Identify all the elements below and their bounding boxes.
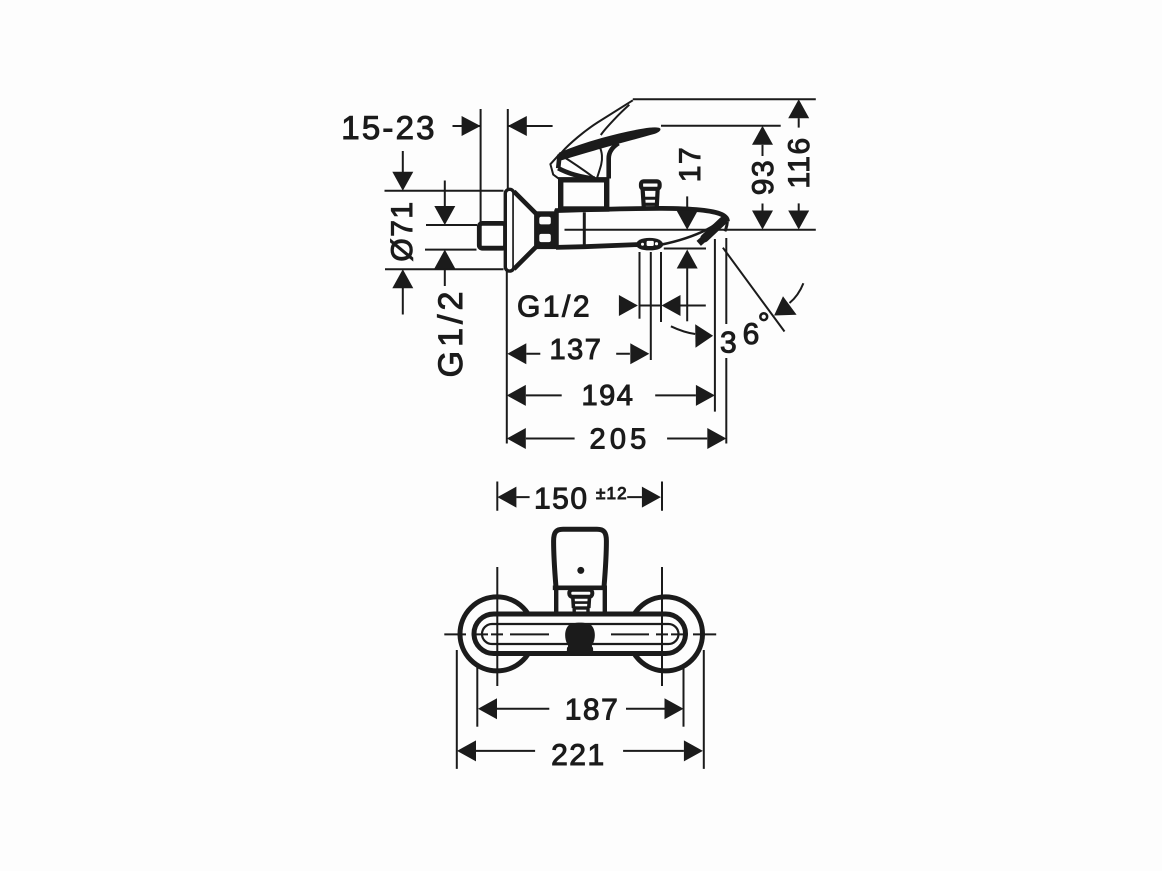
dim 137 [526,353,630,355]
body bottom edge [556,245,637,248]
handle base band [553,585,607,590]
aerator [636,238,663,251]
dim 205 [526,438,708,440]
angle 36 leader left [671,326,695,334]
svg-text:221: 221 [551,739,606,772]
extension line spout tip [714,239,716,412]
extension 187 right [683,668,685,727]
dim 221 [476,750,684,752]
dim 93 [762,145,764,156]
extension line aerator left [639,252,641,319]
extension line wall face bottom long [506,272,508,444]
handle wedge bottom edge [558,168,595,179]
handle front edge [609,143,619,178]
spout under curve [661,225,715,245]
svg-text:17: 17 [674,146,707,182]
handle crease front [597,147,602,178]
handle top thin line A [562,100,633,152]
extension line spout end 205 [725,238,727,444]
svg-text:93: 93 [747,159,780,195]
spout mouth band [705,221,724,238]
dim 187 [497,708,665,710]
inner capsule [482,624,679,644]
cartridge neck [561,180,607,209]
dim G1/2 aerator [640,305,706,307]
union collar (black block) [536,211,557,249]
diverter front blob [565,623,595,655]
extension line spout outlet [664,248,706,250]
svg-text:150: 150 [534,482,589,515]
36 degree diagonal [723,248,785,332]
handle left facet thin [550,154,559,179]
handle front [554,529,607,586]
right escutcheon circle [629,597,703,671]
extension 187 left [476,667,478,727]
extension line 93 top [661,125,781,127]
wall nipple G1/2 [479,223,505,248]
svg-text:116: 116 [783,136,816,188]
extension line nipple dia bottom [425,249,477,251]
body left edge [554,210,559,249]
handle wedge left edge [558,155,559,169]
axis line front [444,633,716,635]
dim 15-23 [453,125,553,127]
angle 36 leader right arc [790,283,804,303]
body joint line [583,212,586,246]
left escutcheon circle [460,597,534,671]
svg-text:3: 3 [720,327,737,360]
dim 150 [516,496,642,498]
svg-text:G1/2: G1/2 [432,288,470,378]
body top edge [555,208,727,221]
escutcheon plate [505,189,514,271]
extension 221 right [703,650,705,769]
extension line nipple dia top [426,224,477,226]
svg-text:Ø71: Ø71 [386,200,419,261]
svg-text:15-23: 15-23 [341,109,436,146]
svg-text:187: 187 [565,694,620,727]
dim 194 [526,394,696,396]
handle lever swoosh [559,128,660,160]
handle crease diagonal [562,156,596,179]
dim 17 [686,196,688,210]
svg-text:205: 205 [590,424,651,456]
extension line nipple top [480,109,482,222]
extension line wall face top [507,109,509,189]
extension 221 left [456,650,458,769]
extension 150 right / centerline [661,482,663,687]
svg-text:G1/2: G1/2 [517,291,592,324]
spout right edge [725,221,728,231]
dim G1/2 wall nipple [444,181,446,207]
handle skirt [556,590,605,613]
svg-text:194: 194 [582,380,635,412]
extension line O71 top [385,190,504,192]
diverter knob [641,181,660,188]
axis line [565,229,816,231]
body capsule [474,614,686,654]
extension 150 left / centerline [496,482,498,687]
dim O71 [402,151,404,172]
svg-text:±12: ±12 [596,484,628,503]
svg-text:137: 137 [550,334,603,366]
extension line spout axis [650,252,652,360]
handle top thin line B [601,105,630,135]
extension line 116 top [633,98,816,100]
extension line aerator right [660,252,662,322]
svg-text:6: 6 [743,318,760,351]
extension line O71 bottom [385,268,504,270]
svg-text:°: ° [758,308,770,341]
dim 116 [798,118,800,127]
escutcheon cone [514,192,537,270]
